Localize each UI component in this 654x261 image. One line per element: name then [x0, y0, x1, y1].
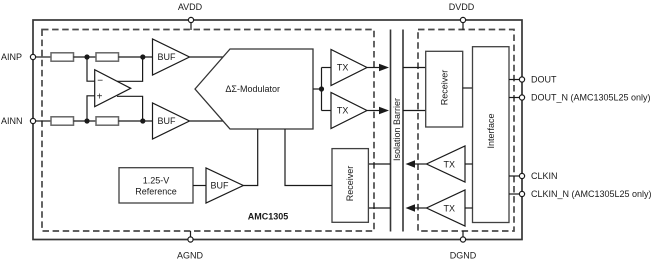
svg-text:Receiver: Receiver — [440, 70, 450, 106]
svg-text:DOUT_N (AMC1305L25 only): DOUT_N (AMC1305L25 only) — [531, 93, 651, 103]
transmitter TX3 — [427, 146, 466, 182]
svg-text:ΔΣ-Modulator: ΔΣ-Modulator — [225, 84, 280, 94]
wire TX3 arrow shaft — [412, 163, 427, 165]
pin AINP — [30, 54, 35, 59]
svg-text:AVDD: AVDD — [178, 2, 203, 12]
label CLKIN wire — [509, 175, 520, 177]
wire barrier to analog receiver upper — [368, 163, 390, 165]
isolation barrier right line — [402, 30, 404, 232]
wire BUF1 to modulator — [190, 56, 225, 58]
wire barrier to analog receiver lower — [368, 207, 390, 209]
svg-text:Isolation Barrier: Isolation Barrier — [392, 98, 402, 161]
svg-text:AGND: AGND — [177, 251, 204, 261]
wire reference to BUF3 — [193, 185, 206, 187]
pin CLKIN_N — [519, 191, 524, 196]
wire analog receiver to modulator feed — [285, 129, 332, 186]
pin AGND stem — [190, 231, 192, 238]
wire interface to CLKIN_N — [509, 193, 520, 195]
wire to TX2 — [322, 110, 332, 112]
wire BUF2 to modulator — [190, 120, 225, 122]
pin DVDD — [460, 17, 465, 22]
analog side dashed box — [42, 30, 374, 232]
arrowhead TX2 — [379, 107, 389, 114]
svg-text:Interface: Interface — [486, 113, 496, 148]
pin DGND stem — [462, 231, 464, 238]
pin AGND — [188, 237, 193, 242]
buffer BUF3 — [206, 168, 243, 203]
svg-text:AINP: AINP — [1, 52, 22, 62]
wire R1 to R2 — [74, 56, 97, 58]
svg-text:Reference: Reference — [135, 187, 177, 197]
wire interface to DOUT — [509, 79, 520, 81]
pin DOUT — [519, 77, 524, 82]
svg-text:DVDD: DVDD — [449, 2, 475, 12]
pin DOUT_N — [519, 95, 524, 100]
reference block 1.25-V — [119, 168, 193, 203]
resistor R3 — [51, 117, 74, 125]
svg-text:AINN: AINN — [1, 116, 23, 126]
wire node A to op-amp minus input — [87, 57, 96, 81]
pin DVDD stem — [462, 22, 464, 30]
buffer BUF1 — [153, 39, 190, 75]
svg-text:DOUT: DOUT — [531, 75, 557, 85]
digital side dashed box — [418, 30, 514, 232]
svg-text:1.25-V: 1.25-V — [143, 176, 170, 186]
svg-text:−: − — [97, 75, 103, 86]
node D junction — [140, 118, 145, 123]
wire interface to DOUT_N — [509, 97, 520, 99]
wire receiver to interface — [463, 87, 473, 89]
svg-text:Receiver: Receiver — [345, 166, 355, 202]
wire R2 to BUF1 — [119, 56, 154, 58]
wire AINN to R3 — [36, 120, 52, 122]
wire TX2 arrow shaft — [367, 110, 382, 112]
pin AVDD — [188, 17, 193, 22]
pin DGND — [460, 237, 465, 242]
wire node B to op-amp upper output — [117, 57, 143, 81]
node C junction — [84, 118, 89, 123]
delta-sigma modulator block — [195, 49, 313, 129]
resistor R2 — [96, 53, 119, 61]
buffer BUF2 — [153, 103, 190, 139]
svg-text:+: + — [97, 91, 103, 102]
wire interface to TX4 — [465, 207, 473, 209]
outer device boundary — [33, 20, 522, 240]
digital receiver block — [426, 51, 463, 127]
arrowhead TX1 — [379, 64, 389, 71]
transmitter TX4 — [427, 190, 466, 226]
op-amp U1 — [95, 70, 131, 107]
arrowhead TX3 — [406, 160, 416, 167]
transmitter TX2 — [331, 93, 367, 129]
node E junction — [319, 86, 324, 91]
wire split vertical — [321, 68, 323, 111]
wire interface to TX3 — [465, 163, 473, 165]
svg-text:TX: TX — [444, 160, 456, 170]
isolation barrier left line — [390, 30, 392, 232]
pin AVDD stem — [190, 22, 192, 30]
wire TX1 arrow shaft — [367, 67, 382, 69]
wire AINP to R1 — [36, 56, 52, 58]
svg-text:TX: TX — [337, 106, 349, 116]
wire node C to op-amp plus input — [87, 96, 96, 121]
wire barrier to receiver lower — [403, 110, 426, 112]
node B junction — [140, 54, 145, 59]
svg-text:BUF: BUF — [158, 52, 177, 62]
arrowhead TX4 — [406, 204, 416, 211]
svg-text:TX: TX — [337, 62, 349, 72]
svg-text:BUF: BUF — [158, 116, 177, 126]
pin AINN — [30, 118, 35, 123]
wire to TX1 — [322, 67, 332, 69]
wire node D to op-amp lower output — [117, 96, 143, 121]
pin CLKIN — [519, 173, 524, 178]
transmitter TX1 — [331, 50, 367, 86]
analog receiver block — [332, 149, 368, 223]
svg-text:BUF: BUF — [211, 181, 230, 191]
interface block — [473, 47, 510, 223]
wire R3 to R4 — [74, 120, 97, 122]
svg-text:CLKIN_N (AMC1305L25 only): CLKIN_N (AMC1305L25 only) — [531, 189, 652, 199]
svg-text:AMC1305: AMC1305 — [248, 211, 289, 221]
wire barrier to receiver upper — [403, 67, 426, 69]
node A junction — [84, 54, 89, 59]
wire BUF3 to modulator — [243, 129, 257, 186]
resistor R4 — [96, 117, 119, 125]
svg-text:TX: TX — [444, 204, 456, 214]
wire R4 to BUF2 — [119, 120, 154, 122]
resistor R1 — [51, 53, 74, 61]
wire modulator to TX split — [313, 88, 322, 90]
wire TX4 arrow shaft — [412, 207, 427, 209]
svg-text:DGND: DGND — [450, 251, 477, 261]
svg-text:CLKIN: CLKIN — [531, 171, 558, 181]
